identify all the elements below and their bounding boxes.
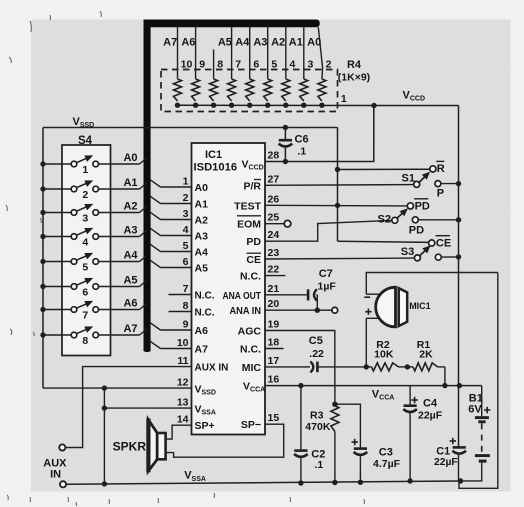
- node R2-R1: [405, 364, 410, 369]
- svg-text:AUX IN: AUX IN: [195, 363, 229, 374]
- svg-text:10K: 10K: [374, 349, 394, 361]
- label P: [437, 188, 444, 200]
- switch S4-4: [40, 228, 147, 249]
- svg-text:C1: C1: [436, 446, 450, 458]
- svg-text:P/R: P/R: [243, 180, 261, 192]
- resistor R3: [331, 402, 339, 486]
- svg-text:C4: C4: [423, 398, 438, 410]
- wire C7 to pin 20: [265, 295, 320, 313]
- label C1: [434, 446, 458, 468]
- svg-text:22µF: 22µF: [418, 409, 443, 421]
- label A6: [123, 297, 137, 309]
- capacitor C1: [450, 438, 466, 482]
- label MIC1: [409, 301, 431, 311]
- svg-text:3: 3: [82, 213, 88, 225]
- label C2: [311, 449, 325, 471]
- capacitor C6: [279, 125, 293, 164]
- svg-text:10: 10: [181, 59, 193, 71]
- svg-text:7: 7: [183, 283, 189, 295]
- svg-text:26: 26: [268, 194, 280, 206]
- wire pin 12 VSSD: [43, 385, 192, 390]
- label A1: [123, 177, 137, 189]
- svg-text:470K: 470K: [305, 421, 331, 433]
- battery B1: [461, 386, 491, 481]
- switch S2: [392, 208, 408, 223]
- svg-text:A2: A2: [271, 37, 285, 49]
- label SPKR: [113, 440, 147, 454]
- svg-text:4: 4: [289, 59, 295, 71]
- wire VSSD drop: [337, 128, 339, 242]
- label R bar: [436, 161, 445, 175]
- wire pin 13 VSSA: [104, 407, 191, 409]
- wire pin 14 SP+: [166, 425, 192, 439]
- svg-text:A7: A7: [163, 37, 177, 49]
- svg-text:13: 13: [177, 397, 189, 409]
- svg-text:8: 8: [82, 335, 88, 347]
- svg-text:18: 18: [268, 337, 280, 349]
- wire pin 7 N.C. stub: [169, 294, 192, 296]
- svg-text:3: 3: [307, 59, 313, 71]
- contact R: [430, 166, 436, 172]
- wire bus to pin 1: [150, 180, 191, 187]
- label S3: [401, 246, 414, 258]
- wire bus to pin 3: [150, 212, 191, 219]
- svg-text:A1: A1: [195, 199, 209, 211]
- wire pin 27 to S1: [265, 184, 414, 187]
- switch S4-1: [40, 155, 147, 176]
- label A0: [123, 152, 137, 164]
- label VCCD: [403, 90, 426, 103]
- svg-text:P: P: [437, 188, 444, 200]
- svg-text:R4: R4: [347, 59, 362, 71]
- wire pin 22 N.C. stub: [265, 275, 286, 277]
- label plus: [365, 309, 371, 315]
- svg-text:15: 15: [268, 412, 280, 424]
- svg-text:IN: IN: [50, 469, 61, 481]
- terminal AUX IN upper: [59, 444, 65, 450]
- svg-text:22: 22: [268, 264, 280, 276]
- scan marks (decorative): [6, 11, 365, 506]
- svg-text:22µF: 22µF: [434, 457, 458, 468]
- switch S1: [414, 172, 430, 188]
- IC right pin numbers: [268, 150, 280, 425]
- wire battery return: [459, 273, 498, 489]
- label PD bar: [414, 199, 430, 213]
- svg-text:1: 1: [82, 164, 88, 176]
- svg-text:2: 2: [183, 192, 189, 204]
- wire pin 20 terminal: [317, 309, 332, 311]
- label R4: [347, 59, 362, 71]
- bus address labels A7-A0: [163, 37, 321, 49]
- svg-text:MIC1: MIC1: [409, 301, 431, 311]
- svg-text:A4: A4: [195, 247, 209, 259]
- svg-text:A0: A0: [195, 182, 209, 194]
- contact P: [435, 181, 441, 187]
- svg-text:25: 25: [268, 212, 280, 224]
- resistor R2: [366, 363, 407, 371]
- svg-text:5: 5: [183, 240, 189, 252]
- svg-text:A3: A3: [123, 224, 137, 236]
- switch S4-8: [40, 326, 147, 347]
- svg-text:ANA IN: ANA IN: [230, 306, 262, 317]
- svg-text:IC1: IC1: [205, 149, 222, 161]
- svg-text:8: 8: [217, 59, 223, 71]
- wire VCCD rail: [458, 106, 460, 448]
- terminal EOM: [284, 220, 291, 227]
- label pin16 VCCA: [243, 381, 265, 394]
- wire to S3 CE contact: [338, 241, 429, 242]
- svg-text:17: 17: [268, 355, 280, 367]
- svg-text:.1: .1: [315, 459, 324, 471]
- svg-text:ANA OUT: ANA OUT: [223, 291, 262, 302]
- svg-text:N.C.: N.C.: [240, 344, 261, 356]
- svg-text:A0: A0: [123, 152, 137, 164]
- switch S4-2: [40, 180, 147, 201]
- svg-text:14: 14: [177, 414, 189, 426]
- label A4: [123, 249, 138, 261]
- svg-text:C6: C6: [295, 133, 309, 145]
- svg-text:A6: A6: [195, 325, 209, 337]
- svg-text:A3: A3: [253, 37, 267, 49]
- svg-text:A3: A3: [195, 231, 209, 243]
- svg-text:.22: .22: [309, 348, 324, 360]
- svg-text:PD: PD: [409, 225, 424, 237]
- svg-text:S3: S3: [401, 246, 414, 258]
- svg-text:4: 4: [82, 237, 88, 249]
- svg-text:S2: S2: [378, 213, 391, 225]
- label ISD1016: [194, 162, 238, 174]
- svg-text:C3: C3: [379, 446, 393, 458]
- svg-text:2K: 2K: [419, 349, 433, 361]
- wire VSSD to VSSA: [102, 388, 107, 486]
- svg-text:A1: A1: [123, 177, 137, 189]
- label minus: [364, 296, 370, 298]
- svg-text:A0: A0: [307, 37, 321, 49]
- IC left pin labels: [195, 182, 229, 432]
- switch S4-5: [40, 253, 147, 274]
- R4 top leads: [178, 27, 323, 79]
- label A7: [123, 323, 137, 335]
- svg-text:12: 12: [177, 377, 189, 389]
- label C5: [309, 335, 324, 360]
- wire pin 16 VCCA: [265, 383, 482, 388]
- label R2: [374, 339, 394, 361]
- svg-text:2: 2: [82, 189, 88, 201]
- label PD: [409, 225, 424, 237]
- svg-text:24: 24: [268, 229, 280, 241]
- svg-text:5: 5: [82, 262, 88, 274]
- svg-text:20: 20: [268, 298, 280, 310]
- label R3: [305, 410, 331, 433]
- svg-text:S4: S4: [78, 135, 93, 147]
- svg-text:1: 1: [341, 93, 347, 105]
- svg-text:9: 9: [183, 319, 189, 331]
- label VSSA: [184, 470, 206, 483]
- svg-text:19: 19: [268, 319, 280, 331]
- wire VCCD to pin 28: [265, 106, 374, 162]
- svg-text:A4: A4: [235, 37, 250, 49]
- contact PD: [412, 217, 418, 223]
- svg-text:A2: A2: [123, 200, 137, 212]
- svg-text:6: 6: [183, 256, 189, 268]
- contact CE bar: [429, 240, 435, 246]
- contact CE2: [435, 254, 441, 260]
- svg-text:4: 4: [183, 224, 189, 236]
- svg-text:A4: A4: [123, 249, 138, 261]
- svg-text:AGC: AGC: [238, 326, 262, 338]
- label C4: [418, 398, 443, 422]
- label A5: [123, 274, 137, 286]
- resistor R1: [407, 363, 445, 371]
- wire MIC top: [366, 273, 498, 295]
- svg-text:N.C.: N.C.: [195, 308, 215, 319]
- svg-text:16: 16: [268, 374, 280, 386]
- terminal ANA IN: [332, 307, 338, 313]
- terminal AUX IN lower: [60, 481, 66, 487]
- svg-text:CE: CE: [246, 254, 261, 266]
- R4 resistors (1K x 9): [174, 79, 326, 101]
- svg-text:1: 1: [183, 176, 189, 188]
- node VSSD wire: [43, 127, 338, 129]
- wire pin 17: [265, 366, 310, 368]
- svg-text:1µF: 1µF: [318, 281, 337, 293]
- svg-text:SP−: SP−: [241, 419, 261, 431]
- svg-text:7: 7: [235, 59, 241, 71]
- svg-text:6: 6: [253, 59, 259, 71]
- svg-text:PD: PD: [415, 201, 430, 213]
- svg-text:A5: A5: [195, 263, 209, 275]
- wire MIC minus stub: [366, 293, 380, 295]
- svg-text:A5: A5: [123, 274, 137, 286]
- svg-text:23: 23: [268, 247, 280, 259]
- svg-text:11: 11: [177, 355, 188, 367]
- wire pin 25 EOM: [265, 223, 284, 225]
- capacitor C4: [403, 386, 418, 484]
- IC right pin labels: [223, 180, 262, 432]
- wire pin 15 SP-: [166, 424, 284, 457]
- svg-text:C5: C5: [309, 335, 323, 347]
- resistor network R4 dashed outline: [161, 70, 338, 112]
- wire pin 21: [265, 294, 307, 296]
- wire bus to pin 10: [150, 341, 191, 348]
- svg-text:6: 6: [82, 287, 88, 299]
- label VCCA: [372, 389, 395, 402]
- IC left pin numbers: [177, 176, 189, 426]
- label C6: [295, 133, 309, 157]
- svg-text:R: R: [437, 163, 445, 175]
- label S1: [402, 173, 415, 185]
- svg-text:CE: CE: [436, 237, 451, 249]
- label AUX IN: [43, 458, 67, 481]
- wire PD to VCCD rail: [418, 217, 461, 222]
- node VCCD wire: [371, 103, 458, 108]
- svg-text:S1: S1: [402, 173, 415, 185]
- svg-text:A7: A7: [195, 344, 209, 356]
- wire bus to pin 6: [150, 260, 191, 267]
- svg-text:TEST: TEST: [234, 201, 261, 213]
- svg-text:C7: C7: [319, 268, 333, 280]
- svg-text:(1K×9): (1K×9): [338, 71, 370, 83]
- switch S4-3: [40, 204, 147, 225]
- svg-text:SPKR: SPKR: [113, 440, 147, 454]
- svg-text:A5: A5: [218, 37, 232, 49]
- wire bus to pin 5: [150, 244, 191, 251]
- svg-text:N.C.: N.C.: [240, 271, 261, 283]
- label R1: [417, 339, 433, 361]
- wire bus to pin 4: [150, 228, 191, 235]
- wire C5 to mic node: [319, 366, 367, 368]
- svg-text:2: 2: [326, 59, 332, 71]
- wire pin 8 N.C. stub: [169, 311, 192, 313]
- address bus (thick line): [144, 20, 320, 353]
- svg-text:6V: 6V: [468, 403, 482, 415]
- microphone MIC1 body: [376, 287, 408, 327]
- wire S4 common bus: [42, 128, 44, 389]
- label pin28 VCCD: [242, 159, 264, 172]
- capacitor C3: [335, 404, 367, 485]
- wire pin 11 to AUX: [66, 367, 192, 448]
- label R4 pin 1: [341, 93, 347, 105]
- wire pin 24 to S2: [265, 220, 392, 241]
- svg-text:3: 3: [183, 208, 189, 220]
- wire pin 26 to PD contact: [265, 203, 407, 208]
- svg-text:.1: .1: [298, 146, 307, 158]
- svg-text:ISD1016: ISD1016: [194, 162, 238, 174]
- svg-text:EOM: EOM: [237, 219, 261, 231]
- switch S3: [414, 245, 430, 261]
- capacitor C2: [294, 383, 308, 486]
- R4 common wire pin 1: [175, 103, 374, 108]
- wire pin 19 AGC: [265, 331, 335, 405]
- capacitor C7: [308, 289, 317, 300]
- svg-text:A6: A6: [181, 37, 195, 49]
- svg-text:PD: PD: [246, 236, 261, 248]
- wire R1 to VCCA: [442, 367, 447, 388]
- switch block S4 outline: [62, 145, 111, 356]
- wire P to VCCD rail: [441, 181, 461, 186]
- capacitor C5: [310, 362, 317, 373]
- svg-text:A6: A6: [123, 297, 137, 309]
- svg-text:SP+: SP+: [195, 420, 215, 432]
- wire pin 18 N.C. stub: [265, 348, 284, 350]
- label CE bar: [436, 236, 452, 250]
- node MIC junction: [364, 364, 369, 369]
- svg-text:4.7µF: 4.7µF: [373, 458, 401, 470]
- label A2: [123, 200, 137, 212]
- svg-text:10: 10: [177, 337, 189, 349]
- svg-text:5: 5: [271, 59, 277, 71]
- label S2: [378, 213, 391, 225]
- label VSSD: [73, 116, 95, 129]
- svg-text:7: 7: [82, 310, 88, 322]
- svg-text:N.C.: N.C.: [195, 291, 215, 302]
- wire CE to VCCD rail: [441, 254, 461, 259]
- svg-text:9: 9: [199, 59, 205, 71]
- svg-text:A7: A7: [123, 323, 137, 335]
- label A3: [123, 224, 137, 236]
- switch S4-6: [40, 278, 147, 299]
- svg-text:27: 27: [268, 173, 280, 185]
- label C7: [318, 268, 337, 293]
- label IC1: [205, 149, 222, 161]
- R4 pin numbers: [181, 59, 332, 71]
- wire pin 23 to S3: [265, 257, 414, 260]
- label B1: [468, 392, 483, 415]
- IC U1 ISD1016 outline: [192, 143, 266, 435]
- wire MIC plus lead: [366, 318, 379, 367]
- svg-text:MIC: MIC: [242, 362, 262, 374]
- wire bus to pin 2: [150, 196, 191, 203]
- speaker SPKR: [148, 419, 165, 473]
- switch S4-7: [40, 301, 147, 322]
- wire to S1 R contact: [335, 167, 430, 172]
- svg-text:8: 8: [183, 300, 189, 312]
- label R4 value: [338, 71, 370, 83]
- svg-text:A1: A1: [289, 37, 303, 49]
- contact PD bar: [407, 203, 413, 209]
- svg-text:A2: A2: [195, 215, 209, 227]
- label S4: [78, 135, 93, 147]
- svg-text:21: 21: [268, 283, 280, 295]
- wire bus to pin 9: [150, 323, 191, 330]
- label C3: [373, 446, 401, 470]
- svg-text:28: 28: [268, 150, 280, 162]
- ground rail VSSA: [66, 478, 463, 484]
